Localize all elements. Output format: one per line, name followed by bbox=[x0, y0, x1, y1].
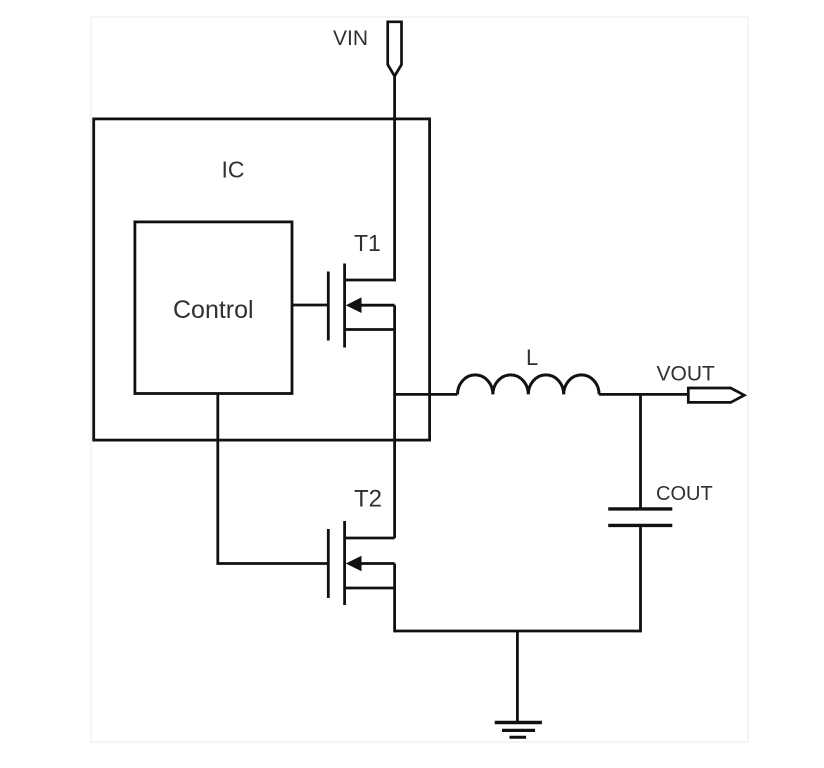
svg-text:VOUT: VOUT bbox=[657, 363, 716, 386]
wire ground tap bbox=[516, 631, 519, 723]
terminal VOUT bbox=[688, 388, 744, 402]
wire switch node to inductor bbox=[395, 393, 458, 396]
ground bbox=[495, 723, 542, 738]
control block bbox=[135, 222, 292, 394]
wire inductor to VOUT bbox=[599, 393, 688, 396]
inductor L bbox=[458, 375, 600, 395]
wire VOUT node to COUT bbox=[639, 394, 642, 509]
svg-text:T2: T2 bbox=[354, 486, 382, 513]
svg-text:VIN: VIN bbox=[333, 27, 368, 50]
svg-text:IC: IC bbox=[222, 156, 245, 182]
terminal VIN bbox=[388, 22, 402, 76]
transistor T2 bbox=[328, 521, 394, 605]
svg-text:COUT: COUT bbox=[656, 483, 713, 505]
svg-text:Control: Control bbox=[173, 296, 254, 324]
wire COUT to ground rail bbox=[639, 525, 642, 633]
capacitor COUT bbox=[608, 509, 672, 526]
wire ground rail bbox=[395, 630, 641, 633]
wire Control to T2 gate bbox=[218, 394, 327, 564]
svg-text:T1: T1 bbox=[354, 230, 381, 256]
wire VIN to T1 drain bbox=[393, 76, 396, 281]
IC U1 box bbox=[94, 119, 430, 440]
svg-text:L: L bbox=[526, 345, 538, 370]
wire T1 source to T2 drain (switch node) bbox=[393, 305, 396, 538]
wire Control to T1 gate bbox=[292, 304, 327, 307]
transistor T1 bbox=[328, 264, 394, 348]
wire T2 source to ground rail bbox=[393, 564, 396, 633]
